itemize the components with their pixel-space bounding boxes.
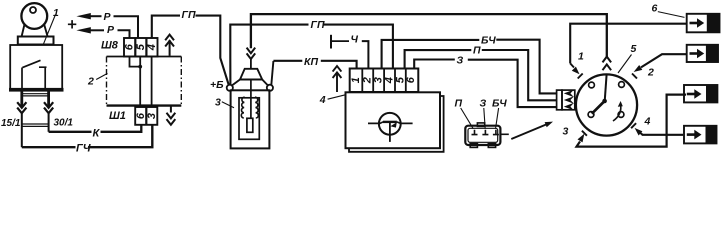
svg-text:ГЧ: ГЧ (76, 143, 91, 155)
svg-text:30/1: 30/1 (54, 118, 74, 129)
svg-text:Р: Р (104, 11, 112, 23)
svg-text:3: 3 (146, 113, 158, 119)
svg-text:2: 2 (87, 76, 94, 88)
svg-text:З: З (480, 98, 487, 110)
svg-text:П: П (473, 45, 481, 57)
svg-text:Ш8: Ш8 (101, 40, 119, 52)
svg-text:6: 6 (405, 76, 417, 83)
svg-text:4: 4 (319, 94, 326, 106)
svg-text:П: П (455, 98, 463, 110)
svg-text:6: 6 (652, 3, 658, 15)
svg-text:5: 5 (631, 43, 637, 55)
svg-text:2: 2 (647, 67, 654, 79)
svg-text:1: 1 (350, 77, 362, 83)
svg-text:БЧ: БЧ (481, 34, 496, 46)
svg-text:6: 6 (124, 43, 136, 50)
svg-text:Ш1: Ш1 (109, 110, 126, 122)
svg-text:3: 3 (563, 126, 569, 138)
svg-text:+Б: +Б (210, 79, 224, 91)
svg-text:4: 4 (146, 44, 158, 51)
svg-text:ГП: ГП (182, 9, 196, 21)
svg-text:Р: Р (107, 24, 115, 36)
svg-text:Ч: Ч (351, 34, 359, 46)
svg-text:15/1: 15/1 (1, 118, 21, 129)
svg-text:5: 5 (135, 43, 147, 50)
svg-text:БЧ: БЧ (492, 98, 507, 110)
svg-text:КП: КП (304, 56, 318, 68)
svg-text:1: 1 (578, 51, 584, 63)
svg-text:З: З (457, 54, 464, 66)
svg-text:4: 4 (644, 116, 651, 128)
svg-text:3: 3 (215, 97, 221, 109)
